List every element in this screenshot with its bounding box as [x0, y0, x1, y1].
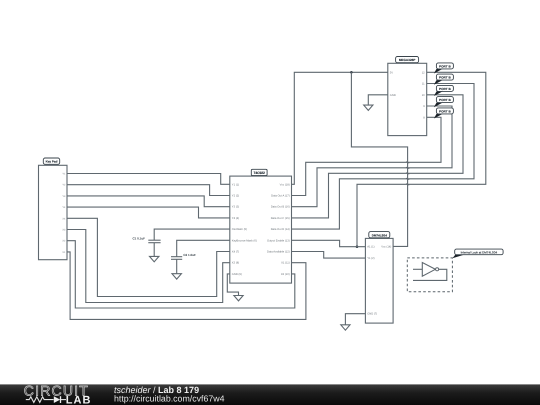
- annotation dashed box internal look: [407, 258, 452, 292]
- svg-text:Data Out B (16): Data Out B (16): [271, 206, 290, 209]
- flag PORT B on pin 9 wire: [434, 97, 454, 108]
- svg-text:PORT B: PORT B: [439, 64, 451, 68]
- svg-text:PORT B: PORT B: [439, 98, 451, 102]
- wire keypad X2 to 74C922 X2(10): [67, 241, 295, 308]
- logo CircuitLab: [24, 382, 92, 405]
- svg-text:http://circuitlab.com/cvf67w4: http://circuitlab.com/cvf67w4: [114, 393, 225, 403]
- ground for C1: [150, 256, 159, 261]
- svg-text:Y3 (3): Y3 (3): [232, 206, 239, 209]
- IC U1 74C922 keypad encoder: [230, 169, 292, 283]
- flag PORT B on pin 10 wire: [434, 85, 454, 96]
- svg-text:C2 1.0uF: C2 1.0uF: [183, 253, 196, 257]
- wire keypad Y4 to 74C922 Y4(4): [67, 207, 230, 218]
- svg-text:10: 10: [422, 94, 425, 97]
- svg-text:PORT B: PORT B: [439, 87, 451, 91]
- capacitor C1 0.1uF: [133, 236, 161, 242]
- svg-text:GND (9): GND (9): [232, 273, 242, 276]
- svg-text:Y4 (4): Y4 (4): [232, 217, 239, 220]
- svg-text:X1 (11): X1 (11): [281, 262, 290, 265]
- flag PORT B on pin 11 wire: [434, 74, 454, 85]
- svg-text:PORT B: PORT B: [439, 76, 451, 80]
- wire keybounce mask pin 6 to C2: [177, 240, 230, 256]
- svg-text:12: 12: [422, 71, 425, 74]
- wire C1 to ground: [153, 243, 155, 257]
- keypad KP1 Key Pad: [39, 158, 68, 260]
- flag PORT B on pin 12 wire: [434, 63, 454, 74]
- svg-text:Internal Look at DM74LS04: Internal Look at DM74LS04: [461, 250, 498, 254]
- wire 74C922 GND(9) to ground: [227, 274, 238, 295]
- wire 5V branch to DM74LS04 Vcc(14): [351, 72, 407, 246]
- svg-text:GND: GND: [390, 94, 396, 97]
- node 5V junction: [350, 71, 353, 74]
- svg-text:5V: 5V: [390, 71, 393, 74]
- ground for 74C922: [234, 296, 243, 301]
- svg-text:KeyBounce Mask (6): KeyBounce Mask (6): [232, 239, 257, 242]
- IC U3 DM74LS04 hex inverter: [365, 232, 393, 323]
- ground for DM74LS04: [341, 325, 350, 330]
- svg-text:Data Available (12): Data Available (12): [267, 251, 290, 254]
- svg-text:PORT B: PORT B: [439, 109, 451, 113]
- wire oscillator pin 5 to C1: [154, 229, 230, 240]
- wire keypad Y1 to 74C922 Y1(1): [67, 174, 230, 185]
- svg-text:LAB: LAB: [66, 394, 92, 405]
- svg-text:Key Pad: Key Pad: [46, 160, 58, 164]
- svg-text:MEGA328P: MEGA328P: [399, 58, 416, 62]
- svg-text:Vcc (14): Vcc (14): [381, 246, 391, 249]
- flag Internal Look at DM74LS04: [452, 249, 503, 258]
- inverter gate inside dashed box: [413, 263, 447, 281]
- wire keypad X3 to 74C922 X3(8): [67, 230, 230, 303]
- wire keypad X4 to 74C922 X4(7): [67, 218, 230, 296]
- capacitor C2 1.0uF: [171, 253, 196, 259]
- wire keypad Y3 to 74C922 Y3(3): [67, 196, 230, 207]
- svg-text:GND (7): GND (7): [367, 313, 377, 316]
- wire MEGA328P pin10 to 74C922 Data Out C(15): [292, 95, 464, 218]
- node junction at DM74LS04 A1 wire: [356, 245, 359, 248]
- ground for MEGA328P: [364, 105, 373, 110]
- svg-text:X3 (8): X3 (8): [232, 262, 239, 265]
- wire keypad Y2 to 74C922 Y2(2): [67, 185, 230, 196]
- svg-text:Output Enable (13): Output Enable (13): [267, 239, 290, 242]
- wire MEGA328P pin9 to 74C922 Data Out B(16): [292, 106, 453, 207]
- wire MEGA328P pin8 to 74C922 Data Out A(17): [292, 117, 442, 195]
- wire 74C922 Data Available(12) to DM74LS04 Y1(2): [292, 252, 366, 259]
- svg-text:C1 0.1uF: C1 0.1uF: [133, 236, 146, 240]
- ground for C2: [172, 274, 181, 279]
- svg-text:Y2 (2): Y2 (2): [232, 195, 239, 198]
- wire C2 to ground: [176, 259, 178, 273]
- wire crossing jogs on bus: [406, 162, 409, 185]
- wire MEGA328P pin12 to 74C922 OE/DM74LS04 A1 node: [357, 72, 486, 246]
- wire keypad X1 to 74C922 X1(11): [67, 252, 306, 320]
- svg-text:74C922: 74C922: [254, 171, 265, 175]
- svg-text:Data Out D (14): Data Out D (14): [271, 228, 290, 231]
- svg-text:Data Out C (15): Data Out C (15): [271, 217, 290, 220]
- flag PORT B on pin 8 wire: [434, 108, 454, 119]
- svg-text:DM74LS04: DM74LS04: [372, 233, 388, 237]
- IC U2 MEGA328P: [388, 57, 427, 136]
- wire MEGA328P GND to ground: [368, 95, 388, 105]
- wire MEGA328P pin11 to 74C922 Data Out D(14): [292, 84, 475, 230]
- svg-text:Oscillator (5): Oscillator (5): [232, 228, 247, 231]
- svg-text:X2 (10): X2 (10): [281, 273, 290, 276]
- wire 5V rail 74C922 Vcc(18) to MEGA328P 5V: [292, 72, 388, 184]
- svg-text:A1 (1): A1 (1): [367, 246, 374, 249]
- svg-text:Y1 (2): Y1 (2): [367, 257, 374, 260]
- svg-text:X4 (7): X4 (7): [232, 251, 239, 254]
- svg-text:Y1 (1): Y1 (1): [232, 183, 239, 186]
- svg-text:Data Out A (17): Data Out A (17): [271, 195, 290, 198]
- svg-text:Vcc (18): Vcc (18): [280, 183, 290, 186]
- wire 74C922 Output Enable(13) to DM74LS04 A1(1): [292, 240, 366, 246]
- wire DM74LS04 GND(7) to ground: [345, 314, 365, 325]
